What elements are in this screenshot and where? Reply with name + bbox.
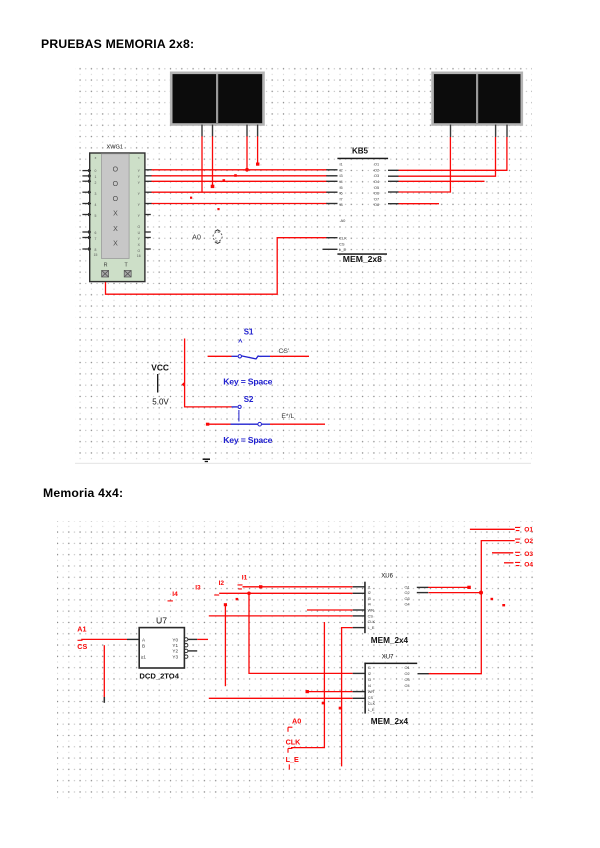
- svg-text:I2: I2: [219, 580, 225, 587]
- svg-text:WR: WR: [368, 609, 375, 613]
- heading: Memoria 4x4: [43, 486, 123, 500]
- XU6 left pin labels: [368, 585, 376, 630]
- U7 output bubbles: [185, 638, 188, 659]
- svg-text:CS: CS: [368, 696, 374, 700]
- input terminal I2: [214, 580, 224, 595]
- wire net WR2 to XU7: [307, 691, 353, 693]
- wire net O1 label stub: [470, 528, 515, 530]
- U5 right pin stubs: [388, 170, 399, 203]
- wire net D2: [152, 175, 327, 177]
- svg-text:O: O: [113, 166, 119, 173]
- svg-text:CLK: CLK: [339, 236, 347, 241]
- svg-text:MEM_2x4: MEM_2x4: [371, 717, 409, 726]
- U7 pin Y0 stub: [188, 638, 197, 640]
- svg-text:O2: O2: [374, 168, 379, 172]
- svg-text:x: x: [95, 156, 97, 160]
- word generator XWG1 body: [90, 153, 145, 282]
- svg-text:VCC: VCC: [151, 363, 169, 373]
- arrow dot top of I4 vertical: [224, 603, 227, 606]
- XU7 right pin labels: [405, 666, 410, 688]
- stray dot on CLK vertical: [322, 702, 325, 705]
- wire end dot pin4: [256, 163, 259, 166]
- svg-text:O6: O6: [374, 192, 379, 196]
- seven-segment display pair U2 (right): [433, 73, 522, 125]
- wire S1 right (net CS'): [270, 355, 309, 357]
- display U1 pin 2: [212, 125, 213, 137]
- wire end dot on net I1: [259, 585, 262, 588]
- grid dots: [57, 521, 535, 801]
- display U2 pin 2: [495, 125, 496, 138]
- switch S1 body: [232, 355, 271, 359]
- ground: [203, 459, 210, 461]
- svg-text:CS: CS: [368, 614, 374, 618]
- svg-text:O3: O3: [374, 174, 379, 178]
- wire end dot XU6 O1: [467, 586, 471, 589]
- wire net D4: [152, 191, 327, 193]
- heading: PRUEBAS MEMORIA 2x8: [41, 37, 194, 51]
- wire net O1 right: [399, 137, 507, 170]
- XWG1 left pin numbers column: [94, 156, 98, 257]
- svg-text:8: 8: [95, 248, 97, 252]
- svg-text:O3: O3: [405, 678, 410, 682]
- svg-text:O4: O4: [405, 684, 410, 688]
- memory XU6 left border: [364, 582, 366, 634]
- svg-text:I2: I2: [340, 168, 343, 172]
- XU7 left pin labels: [368, 666, 376, 712]
- svg-text:Key = Space: Key = Space: [223, 435, 272, 445]
- svg-text:1: 1: [95, 175, 97, 179]
- svg-text:Y2: Y2: [172, 649, 178, 654]
- svg-text:O4: O4: [524, 561, 533, 568]
- svg-text:CLK: CLK: [368, 620, 376, 624]
- wire net I2 to XU6 and XU7: [219, 593, 353, 673]
- svg-text:6: 6: [95, 231, 97, 235]
- svg-text:DCD_2TO4: DCD_2TO4: [139, 671, 179, 680]
- display U1 pin 3: [246, 125, 247, 137]
- arrow on VCC rail wire: [182, 382, 185, 387]
- svg-text:XWG1: XWG1: [107, 144, 123, 150]
- svg-text:O: O: [137, 249, 140, 253]
- svg-text:O2: O2: [405, 591, 410, 595]
- svg-text:CS': CS': [279, 348, 290, 355]
- svg-text:CLK: CLK: [286, 737, 302, 746]
- switch S2 upper throw: [232, 405, 242, 421]
- svg-text:I4: I4: [368, 684, 371, 688]
- wire net I1 to XU6: [243, 586, 353, 588]
- wire display pin 2 (dangling): [212, 136, 214, 185]
- svg-text:CLK: CLK: [368, 702, 376, 706]
- U7 pin A stub: [127, 638, 139, 640]
- input terminal I4: [168, 591, 179, 601]
- stray dot near XU6 O4: [502, 604, 505, 606]
- svg-text:2: 2: [95, 181, 97, 185]
- svg-text:I1: I1: [242, 574, 248, 581]
- svg-text:O4: O4: [374, 180, 379, 184]
- switch S1 state mark: [239, 339, 242, 342]
- stray dot near XU6 O3: [491, 598, 494, 600]
- svg-text:≥1: ≥1: [141, 654, 147, 659]
- svg-text:MEM_2x4: MEM_2x4: [371, 636, 409, 645]
- svg-text:A0: A0: [292, 717, 301, 726]
- svg-text:O3: O3: [405, 597, 410, 601]
- svg-text:U7: U7: [156, 615, 167, 625]
- svg-text:XU7: XU7: [382, 655, 394, 661]
- svg-text:3: 3: [95, 192, 97, 196]
- svg-text:I2: I2: [368, 672, 371, 676]
- svg-text:S1: S1: [244, 328, 254, 337]
- svg-text:5: 5: [95, 214, 97, 218]
- svg-text:Y0: Y0: [172, 637, 178, 642]
- XU6 right pin stubs: [417, 587, 428, 592]
- display U2 pin 1: [450, 125, 451, 138]
- wire XWG1 R to U5 CLK: [106, 238, 327, 295]
- XWG1 data column values: [113, 166, 119, 247]
- decoder U7 box: [139, 628, 184, 668]
- svg-text:O1: O1: [374, 163, 379, 167]
- wire XU6 O1 output: [428, 586, 469, 588]
- svg-text:X: X: [113, 241, 118, 248]
- display U1 pin 1: [201, 125, 202, 137]
- input terminal I3: [195, 585, 201, 592]
- svg-text:5.0V: 5.0V: [152, 398, 169, 407]
- svg-text:E*/L: E*/L: [281, 413, 294, 420]
- svg-text:O4: O4: [405, 603, 410, 607]
- svg-text:O8: O8: [374, 203, 379, 207]
- grid dots: [75, 64, 532, 463]
- svg-text:O3: O3: [524, 551, 533, 558]
- svg-text:4: 4: [95, 203, 97, 207]
- schematic area 1: [75, 64, 535, 466]
- svg-text:15: 15: [94, 253, 98, 257]
- wire display pin 4 (dangling): [257, 136, 259, 163]
- output terminal O1: [515, 526, 533, 533]
- stray dot A: [190, 197, 192, 199]
- wire net O2 (label to XU6.O2 to XU7.O2): [429, 541, 515, 674]
- wire net O3 right: [399, 180, 485, 182]
- svg-text:KB5: KB5: [352, 146, 369, 155]
- svg-text:A0: A0: [341, 218, 347, 223]
- wire net CLK vertical: [291, 622, 324, 748]
- svg-text:<: <: [138, 156, 140, 160]
- svg-text:XU6: XU6: [381, 574, 393, 580]
- wire to S1 left: [208, 355, 232, 357]
- svg-text:X: X: [113, 226, 118, 233]
- svg-text:I1: I1: [368, 585, 371, 589]
- XWG1 right pin stubs: [145, 170, 152, 249]
- svg-text:L_E: L_E: [286, 755, 299, 764]
- dangling vertical wire I4: [224, 604, 226, 686]
- display U1 drop wires: [202, 136, 258, 192]
- terminal label CLK: [286, 737, 302, 752]
- output terminal O2: [515, 538, 533, 545]
- wire net O4 label stub: [504, 562, 514, 564]
- wire VCC rail to S2: [185, 339, 232, 407]
- svg-text:I3: I3: [195, 585, 201, 592]
- svg-text:O2: O2: [405, 672, 410, 676]
- output wires U5 to displays: [399, 137, 507, 204]
- svg-text:7: 7: [95, 237, 97, 241]
- memory XU7 left border: [364, 663, 366, 714]
- switch S2 lower body: [231, 422, 271, 426]
- U7 pin Y2 stub: [188, 650, 197, 652]
- VCC stub: [157, 374, 159, 393]
- wire net WR1 to XU6: [307, 609, 353, 611]
- wire net CS2 to XU7: [209, 697, 353, 699]
- XWG1 left pin arrowheads: [88, 169, 91, 251]
- wire XU6 O2 output: [429, 592, 482, 594]
- XU6 left pin stubs: [353, 587, 365, 628]
- svg-text:I4: I4: [172, 591, 178, 598]
- XWG1 T connector: [124, 270, 131, 277]
- wire net CS down: [103, 645, 105, 697]
- terminal label L_E: [286, 755, 299, 770]
- U5 right pin labels O1-O8: [374, 163, 379, 208]
- wire net CS1 to XU6: [209, 615, 353, 617]
- svg-text:I4: I4: [368, 603, 371, 607]
- seven-segment display pair U1 (left): [171, 73, 263, 125]
- svg-text:MEM_2x8: MEM_2x8: [343, 254, 382, 264]
- wire net D3: [152, 180, 327, 182]
- wire net D1: [152, 169, 327, 171]
- svg-text:I3: I3: [340, 174, 343, 178]
- wire display pin 3 to net D1: [246, 136, 248, 170]
- U5 left pin stubs: [323, 170, 338, 250]
- svg-text:O7: O7: [374, 197, 379, 201]
- svg-text:X: X: [113, 211, 118, 218]
- svg-text:I6: I6: [340, 192, 343, 196]
- stray dot B: [217, 208, 219, 210]
- schematic bottom border: [75, 463, 531, 464]
- svg-text:I3: I3: [368, 597, 371, 601]
- stray dot near I1 wire: [236, 598, 239, 600]
- svg-text:A0: A0: [192, 233, 201, 242]
- svg-text:O: O: [137, 225, 140, 229]
- junction dot XU6 O2: [479, 591, 483, 595]
- svg-text:O1: O1: [524, 526, 533, 533]
- wire net O5 right: [399, 203, 440, 205]
- junction dot on net D2: [234, 174, 237, 177]
- svg-text:CS: CS: [339, 241, 345, 246]
- svg-text:B: B: [142, 643, 145, 648]
- bus wires XWG1 to U5: [152, 170, 327, 204]
- svg-text:Y3: Y3: [172, 654, 178, 659]
- svg-text:I5: I5: [340, 186, 343, 190]
- svg-text:R: R: [104, 262, 108, 268]
- wire net A1 to U7: [81, 638, 127, 640]
- svg-text:I1: I1: [340, 163, 343, 167]
- memory U5 bottom border: [337, 253, 387, 255]
- output terminal O4: [515, 561, 533, 568]
- wire stub left of S2 lower: [206, 423, 231, 426]
- memory XU7 top border: [364, 663, 417, 665]
- wire net L_E XU6: [342, 628, 353, 767]
- XWG1 left pins: [82, 171, 91, 249]
- output terminal O3: [515, 551, 533, 558]
- svg-text:CS: CS: [77, 642, 87, 651]
- svg-text:I7: I7: [340, 197, 343, 201]
- svg-text:I1: I1: [368, 666, 371, 670]
- wire end dot pin2: [211, 185, 215, 188]
- schematic area 2: [57, 517, 537, 802]
- junction dot at D1/pin3: [245, 168, 249, 172]
- stray dot near L_E vertical: [339, 707, 342, 710]
- junction dot on net D3: [223, 179, 226, 182]
- svg-text:L_E: L_E: [339, 247, 346, 252]
- CS wire dark tip: [103, 697, 105, 703]
- XWG1 right pin numbers column: [137, 156, 141, 258]
- memory U5 top border: [337, 158, 388, 160]
- svg-text:O1: O1: [405, 585, 410, 589]
- wire net O3 label stub: [492, 552, 513, 554]
- svg-text:WR: WR: [368, 690, 375, 694]
- terminal label A0: [288, 717, 301, 732]
- input terminal I1: [238, 574, 248, 589]
- XU7 left pin stubs: [353, 673, 365, 698]
- junction dot net I2: [247, 592, 251, 596]
- XU6 right pin labels: [405, 585, 410, 606]
- svg-text:O5: O5: [374, 186, 379, 190]
- svg-text:A1: A1: [77, 625, 86, 634]
- svg-text:16: 16: [137, 254, 141, 258]
- svg-text:L_E: L_E: [368, 708, 375, 712]
- svg-text:L_E: L_E: [368, 626, 375, 630]
- svg-text:Y1: Y1: [172, 643, 178, 648]
- svg-text:0: 0: [95, 169, 97, 173]
- display U1 pin 4: [257, 125, 258, 137]
- wire U7 Y0 output: [197, 638, 208, 640]
- svg-text:O: O: [113, 196, 119, 203]
- terminal label CS: [77, 640, 87, 651]
- wire net O4 right: [399, 137, 451, 192]
- svg-text:I8: I8: [340, 203, 343, 207]
- svg-text:I3: I3: [368, 678, 371, 682]
- svg-text:S2: S2: [244, 395, 254, 404]
- display U2 pin 3: [506, 125, 507, 138]
- clock source symbol: [213, 230, 222, 244]
- svg-text:I2: I2: [368, 591, 371, 595]
- wire display pin 1 to net D4: [201, 136, 203, 192]
- wire net D5: [152, 203, 327, 205]
- svg-text:O2: O2: [524, 538, 533, 545]
- wire net O2 right: [399, 137, 496, 176]
- XWG1 R connector: [102, 270, 109, 277]
- XU7 right pin stub O2: [418, 673, 429, 675]
- U5 left pin labels I1-I8: [340, 163, 343, 208]
- wire S2 right (net E'/L): [270, 423, 325, 425]
- svg-text:O1: O1: [405, 666, 410, 670]
- svg-text:I4: I4: [340, 180, 343, 184]
- arrow dot on net WR2: [306, 690, 309, 693]
- svg-text:Key = Space: Key = Space: [223, 376, 272, 386]
- svg-text:O: O: [113, 181, 119, 188]
